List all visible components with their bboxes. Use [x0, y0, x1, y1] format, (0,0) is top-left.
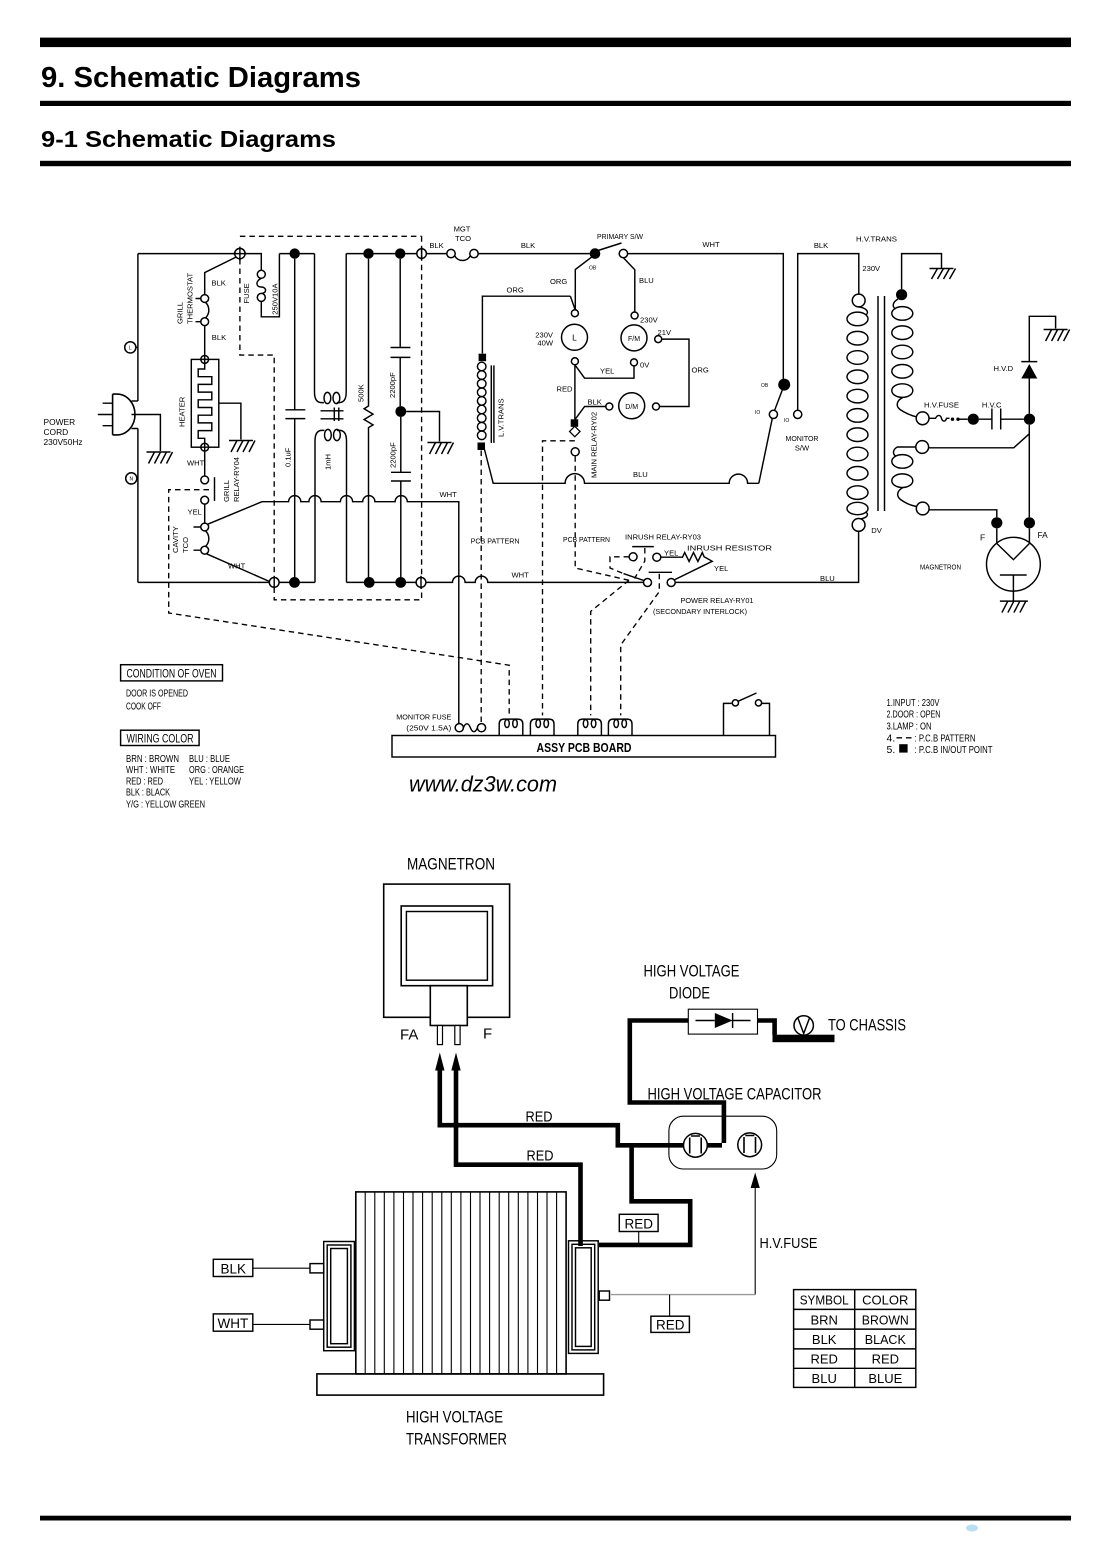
wire: HV secondary top to ground	[902, 254, 942, 290]
capacitor HIGH VOLTAGE CAPACITOR body	[669, 1116, 777, 1169]
svg-text:TCO: TCO	[181, 537, 190, 553]
svg-text:BRN: BRN	[810, 1312, 837, 1327]
svg-text:BLK: BLK	[212, 279, 226, 288]
svg-text:CONDITION OF OVEN: CONDITION OF OVEN	[127, 668, 217, 680]
node: dot F	[991, 517, 1002, 528]
wire: red lead to F pin with arrow	[451, 1053, 460, 1071]
header bar 2	[40, 101, 1071, 106]
svg-text:INRUSH RELAY-RY03: INRUSH RELAY-RY03	[625, 533, 701, 542]
wire: diode to chassis	[758, 1021, 775, 1036]
svg-text:RED: RED	[625, 1216, 654, 1231]
svg-text:GRILL: GRILL	[176, 302, 185, 324]
wire: top line segment B (1mH right to MGT TCO)	[346, 253, 447, 255]
transformer core laminations	[365, 1192, 556, 1374]
node: open circle with cross right	[416, 578, 426, 588]
svg-text:WHT: WHT	[228, 562, 246, 571]
box WIRING COLOR	[121, 730, 200, 745]
capacitor 0.1uF	[285, 259, 305, 577]
svg-text:PCB PATTERN: PCB PATTERN	[563, 535, 610, 544]
svg-text:WHT : WHITE: WHT : WHITE	[126, 764, 175, 776]
transformer left coil frame	[324, 1242, 355, 1351]
svg-text:RED: RED	[526, 1110, 553, 1126]
svg-text:MAIN RELAY-RY02: MAIN RELAY-RY02	[590, 412, 599, 478]
node: dot HV junction	[1024, 414, 1035, 425]
wire: ORG branch to LV trans	[482, 296, 575, 353]
svg-text:RED: RED	[656, 1318, 685, 1333]
wire: top line segment A (fuse riser to 1mH left)	[279, 253, 314, 255]
svg-text:H.V.TRANS: H.V.TRANS	[856, 235, 897, 244]
svg-text:BLU: BLU	[639, 276, 654, 285]
svg-text:FA: FA	[1038, 530, 1049, 540]
switch door interlock on PCB	[724, 703, 770, 735]
svg-text:HIGH VOLTAGE CAPACITOR: HIGH VOLTAGE CAPACITOR	[648, 1086, 822, 1104]
magnetron outer case	[384, 884, 510, 1017]
svg-text:0.1uF: 0.1uF	[284, 447, 293, 467]
svg-text:H.V.C: H.V.C	[982, 401, 1002, 410]
svg-text:OB: OB	[761, 383, 769, 389]
svg-text:GRILL: GRILL	[222, 480, 231, 502]
wire: bottom segment to 1mH	[279, 581, 315, 583]
svg-text:WHT: WHT	[440, 490, 458, 499]
svg-text:H.V.FUSE: H.V.FUSE	[760, 1235, 818, 1252]
svg-text:COLOR: COLOR	[862, 1293, 908, 1308]
wire: BLU bus with hops	[485, 450, 759, 484]
wire: diode to capacitor terminal	[630, 1021, 724, 1144]
node: dot 0.1uF bottom	[289, 577, 300, 588]
svg-text:1.INPUT : 230V: 1.INPUT : 230V	[887, 697, 940, 709]
footer blue smudge	[966, 1525, 978, 1532]
svg-text:ORG: ORG	[692, 366, 709, 375]
svg-text:H.V.D: H.V.D	[994, 364, 1014, 373]
wire: bottom segment from 1mH to fuse hops	[347, 581, 417, 583]
svg-text:L.V.TRANS: L.V.TRANS	[497, 398, 506, 437]
wire: bottom line hops over monitor fuse drops	[426, 576, 644, 582]
svg-text:: P.C.B PATTERN: : P.C.B PATTERN	[915, 732, 976, 744]
svg-text:L: L	[129, 346, 132, 352]
svg-text:500K: 500K	[357, 384, 366, 402]
footer bar	[40, 1516, 1071, 1521]
svg-text:S/W: S/W	[795, 444, 810, 453]
svg-text:MONITOR FUSE: MONITOR FUSE	[396, 713, 451, 722]
svg-text:DV: DV	[871, 526, 882, 535]
svg-text:MGT: MGT	[454, 225, 471, 234]
inductor 1mH common-mode choke	[315, 254, 347, 403]
svg-text:0V: 0V	[640, 361, 650, 370]
svg-text:BLK: BLK	[521, 241, 535, 250]
node: dot	[968, 414, 979, 425]
svg-text:1mH: 1mH	[324, 454, 333, 470]
wire: midpoint to ground	[406, 412, 439, 442]
svg-text:BRN : BROWN: BRN : BROWN	[126, 753, 179, 765]
svg-text:ORG: ORG	[507, 286, 524, 295]
magnetron pins	[437, 1026, 442, 1045]
svg-text:9. Schematic Diagrams: 9. Schematic Diagrams	[41, 62, 361, 94]
svg-text:YEL : YELLOW: YEL : YELLOW	[189, 775, 241, 787]
header bar 3	[40, 161, 1071, 166]
resistor 500K	[364, 259, 373, 577]
svg-text:BROWN: BROWN	[862, 1312, 909, 1327]
svg-text:ASSY PCB BOARD: ASSY PCB BOARD	[537, 741, 632, 755]
svg-text:230V: 230V	[862, 264, 881, 273]
node: open circle with cross	[269, 578, 279, 588]
motor D/M	[619, 393, 645, 419]
svg-text:OB: OB	[589, 266, 597, 272]
svg-text:BLK: BLK	[429, 241, 443, 250]
capacitor H.V.C	[979, 409, 1024, 430]
chassis symbol circle-V	[794, 1016, 813, 1035]
svg-text:F: F	[483, 1026, 492, 1043]
fuse H.V.FUSE	[916, 412, 929, 425]
svg-text:FUSE: FUSE	[242, 283, 251, 303]
svg-text:WHT: WHT	[702, 240, 720, 249]
relay GRILL RELAY-RY04 contacts	[201, 476, 209, 484]
svg-text:BLUE: BLUE	[868, 1371, 902, 1386]
wire: WHT top to monitor switch	[628, 254, 784, 379]
svg-text:www.dz3w.com: www.dz3w.com	[409, 772, 557, 797]
svg-text:230V: 230V	[640, 316, 659, 325]
wire: junction to grill thermostat	[205, 257, 237, 295]
svg-text:BLU: BLU	[820, 574, 835, 583]
svg-text:WHT: WHT	[218, 1316, 249, 1331]
wire: cavity TCO bottom diagonal to bottom line	[207, 554, 270, 582]
svg-text:230V50Hz: 230V50Hz	[44, 437, 83, 447]
wire: DV to bottom BLU line	[675, 531, 858, 582]
svg-text:(SECONDARY INTERLOCK): (SECONDARY INTERLOCK)	[653, 607, 747, 616]
diode HIGH VOLTAGE DIODE	[688, 1009, 757, 1034]
transformer L.V.TRANS	[479, 354, 487, 362]
capacitor 2200pF lower	[391, 417, 411, 577]
node: dot 2200pF tap	[395, 248, 405, 258]
svg-text:HIGH VOLTAGE: HIGH VOLTAGE	[406, 1409, 503, 1427]
svg-text:BLK: BLK	[212, 333, 226, 342]
svg-text:RED: RED	[557, 385, 574, 394]
ground: HVD	[1044, 330, 1070, 342]
svg-text:DIODE: DIODE	[669, 985, 710, 1003]
wire: BLK from relay to D/M	[575, 407, 606, 420]
connector CN4	[608, 719, 632, 735]
svg-text:YEL: YEL	[188, 508, 202, 517]
power plug POWER CORD	[113, 394, 135, 435]
svg-text:CORD: CORD	[44, 427, 69, 437]
label RED box upper	[619, 1214, 658, 1231]
connector CN1	[499, 719, 523, 735]
wire: transformer secondary lead (thin)	[611, 1294, 755, 1296]
wire: MGT TCO to primary switch	[478, 253, 590, 255]
svg-text:IO: IO	[784, 418, 789, 424]
ground: mains plug	[147, 452, 173, 464]
node: dot 2200pF bottom	[395, 577, 406, 588]
svg-text:YEL: YEL	[600, 367, 614, 376]
svg-text:PRIMARY S/W: PRIMARY S/W	[597, 232, 644, 241]
wire: ORG from primary switch down to lamp	[575, 257, 592, 310]
svg-text:250V10A: 250V10A	[271, 283, 280, 315]
svg-text:RED: RED	[527, 1149, 554, 1165]
wire: plug middle prong to ground	[132, 415, 161, 452]
switch PRIMARY S/W	[590, 248, 601, 259]
svg-text:TRANSFORMER: TRANSFORMER	[406, 1431, 507, 1449]
svg-text:D/M: D/M	[625, 404, 638, 411]
svg-text:2200pF: 2200pF	[389, 442, 398, 468]
fuse FUSE 250V10A	[257, 270, 265, 278]
dashed: LV trans to monitor fuse	[480, 451, 482, 724]
dashed: grill relay PCB pattern box	[169, 490, 510, 716]
svg-text:BLK: BLK	[221, 1261, 247, 1276]
ground: 2200pF midpoint	[428, 443, 454, 455]
transformer right coil frame	[569, 1241, 599, 1354]
svg-text:F: F	[980, 533, 985, 543]
wire: BLK link monitor to HV trans	[798, 254, 859, 411]
dashed: EMI filter box	[240, 236, 422, 600]
svg-text:YEL: YEL	[714, 564, 728, 573]
wire: junction to fuse	[245, 254, 261, 271]
wire: mid WHT wire with hops	[262, 496, 459, 724]
svg-text:ORG : ORANGE: ORG : ORANGE	[189, 764, 244, 776]
svg-text:RED: RED	[872, 1352, 899, 1367]
table SYMBOL/COLOR	[794, 1290, 916, 1388]
connector CN3	[578, 719, 602, 735]
transformer HV secondary winding	[896, 289, 907, 300]
wire: N rail from plug down to bottom line	[132, 429, 138, 583]
node: dot 500K tap	[363, 248, 373, 258]
thermal cutout MGT TCO	[447, 249, 455, 257]
node: dot 0.1uF tap	[290, 248, 300, 258]
wire: top line rail L segment	[138, 253, 235, 255]
svg-text:(250V 1.5A): (250V 1.5A)	[406, 724, 452, 733]
svg-text:WHT: WHT	[187, 459, 205, 468]
svg-text:MAGNETRON: MAGNETRON	[920, 563, 961, 572]
svg-text:2.DOOR : OPEN: 2.DOOR : OPEN	[887, 709, 941, 721]
wire: transformer HV lead to capacitor	[599, 1143, 690, 1245]
wire: red lead to FA pin with arrow	[435, 1053, 444, 1071]
svg-text:RED : RED: RED : RED	[126, 775, 163, 787]
pcb ASSY PCB BOARD	[392, 736, 776, 758]
svg-text:POWER: POWER	[44, 417, 76, 427]
label RED box lower	[651, 1316, 690, 1332]
svg-text:9-1 Schematic Diagrams: 9-1 Schematic Diagrams	[41, 126, 336, 152]
svg-text:BLACK: BLACK	[865, 1332, 906, 1347]
dashed: convergence to connector 3	[591, 580, 629, 715]
capacitor 2200pF upper	[391, 259, 411, 407]
svg-text:21V: 21V	[658, 328, 672, 337]
wire: L rail	[137, 254, 139, 401]
wire: filament bottom to F dot	[929, 510, 997, 517]
svg-text:RED: RED	[810, 1352, 837, 1367]
svg-text:Y/G : YELLOW GREEN: Y/G : YELLOW GREEN	[126, 798, 205, 810]
resistor INRUSH RESISTOR	[661, 553, 712, 581]
diode H.V.D	[1028, 379, 1030, 414]
wire: cavity TCO top to mid WHT wire	[208, 502, 263, 525]
svg-text:MONITOR: MONITOR	[786, 434, 819, 443]
svg-text:HEATER: HEATER	[178, 396, 187, 427]
svg-text:DOOR IS OPENED: DOOR IS OPENED	[126, 687, 188, 699]
node: dot FA	[1024, 517, 1035, 528]
svg-text:L: L	[572, 333, 577, 343]
lamp L 230V 40W	[562, 324, 588, 350]
svg-text:BLK: BLK	[814, 241, 828, 250]
svg-text:: P.C.B IN/OUT POINT: : P.C.B IN/OUT POINT	[915, 744, 993, 756]
node: circled L terminal	[125, 342, 136, 353]
node: dot 500K bottom	[364, 577, 375, 588]
svg-text:HIGH VOLTAGE: HIGH VOLTAGE	[644, 963, 740, 981]
svg-text:BLU: BLU	[812, 1371, 837, 1386]
dashed: RY03 actuator	[635, 548, 645, 579]
svg-text:TO CHASSIS: TO CHASSIS	[828, 1017, 906, 1035]
wire: fan right terminal ORG loop to D/M	[660, 339, 690, 406]
svg-text:3.LAMP : ON: 3.LAMP : ON	[887, 720, 932, 732]
wire: filament top to FA column	[929, 425, 1030, 517]
transformer right terminal tab	[599, 1291, 609, 1300]
transformer core	[878, 296, 885, 511]
wire: thermostat to heater	[204, 326, 206, 356]
svg-text:ORG: ORG	[550, 277, 567, 286]
svg-text:BLK: BLK	[588, 398, 602, 407]
dashed: RY01 actuator to connector 4	[621, 574, 660, 716]
magnetron inner frame	[401, 906, 492, 986]
node: 2200pF midpoint dot	[395, 406, 406, 417]
svg-text:WHT: WHT	[512, 571, 530, 580]
wire: heater to grill relay	[204, 451, 206, 476]
svg-text:F/M: F/M	[628, 336, 640, 343]
thermostat GRILL THERMOSTAT	[201, 295, 209, 303]
dashed: RY02 coil links	[543, 441, 630, 716]
svg-text:BLK : BLACK: BLK : BLACK	[126, 787, 170, 799]
switch MONITOR S/W	[778, 379, 790, 391]
box CONDITION OF OVEN	[121, 665, 223, 681]
magnetron MAGNETRON	[987, 537, 1041, 591]
relay POWER RELAY-RY01 contacts	[644, 579, 652, 587]
svg-text:5.: 5.	[887, 744, 896, 756]
svg-text:N: N	[129, 477, 133, 483]
wire: grill relay to cavity TCO	[204, 504, 206, 523]
wire: plug top to L rail	[132, 400, 138, 402]
svg-text:IO: IO	[755, 410, 760, 416]
fan motor F/M	[621, 325, 647, 351]
svg-text:TCO: TCO	[455, 234, 471, 243]
wire: bottom line left segment	[138, 581, 270, 583]
header bar top	[40, 38, 1071, 48]
node: fuse junction circle with cross	[235, 248, 245, 258]
svg-text:RELAY-RY04: RELAY-RY04	[232, 457, 241, 502]
svg-text:4.: 4.	[887, 732, 896, 744]
svg-text:BLU: BLU	[633, 470, 648, 479]
wire: fuse bottom return riser	[261, 254, 279, 317]
svg-text:THERMOSTAT: THERMOSTAT	[186, 272, 195, 324]
transformer filament winding	[916, 441, 929, 454]
transformer HIGH VOLTAGE TRANSFORMER core	[356, 1192, 566, 1374]
relay MAIN RELAY-RY02	[571, 419, 579, 427]
svg-text:COOK OFF: COOK OFF	[126, 701, 161, 713]
thermal cutout CAVITY TCO	[201, 523, 209, 531]
node: open circle at dashed box edge	[417, 249, 427, 259]
chassis bar TO CHASSIS	[773, 1035, 835, 1043]
transformer left terminal tabs	[310, 1264, 324, 1273]
heater HEATER	[191, 359, 219, 447]
transformer H.V.TRANS primary	[852, 294, 865, 307]
connector CN2	[530, 719, 554, 735]
svg-text:H.V.FUSE: H.V.FUSE	[924, 401, 959, 410]
ground: heater	[229, 441, 255, 453]
magnetron neck	[430, 986, 467, 1026]
ground: HV secondary	[930, 269, 956, 280]
transformer base	[317, 1374, 604, 1395]
svg-text:MAGNETRON: MAGNETRON	[407, 856, 495, 874]
svg-text:SYMBOL: SYMBOL	[800, 1293, 849, 1308]
label WHT box	[213, 1314, 253, 1331]
ground: magnetron	[1000, 601, 1028, 613]
svg-text:YEL: YEL	[664, 549, 678, 558]
dashed: RY03 left contact hook	[610, 557, 629, 574]
label BLK box	[213, 1259, 253, 1276]
svg-text:FA: FA	[400, 1027, 418, 1044]
svg-text:2200pF: 2200pF	[388, 372, 397, 398]
wire: heater frame to ground	[219, 403, 241, 439]
node: circled N terminal	[126, 473, 137, 484]
svg-text:WIRING COLOR: WIRING COLOR	[127, 733, 194, 745]
svg-text:CAVITY: CAVITY	[171, 526, 180, 553]
svg-text:BLK: BLK	[812, 1332, 837, 1347]
wire: lamp bottom to YEL and RED	[575, 365, 634, 420]
svg-text:INRUSH RESISTOR: INRUSH RESISTOR	[687, 544, 773, 553]
wire: BLU from primary switch to fan	[623, 258, 634, 312]
arrow H.V.FUSE pointer	[754, 1186, 756, 1295]
svg-text:40W: 40W	[537, 339, 553, 348]
svg-text:BLU : BLUE: BLU : BLUE	[189, 753, 230, 765]
svg-text:PCB PATTERN: PCB PATTERN	[471, 536, 520, 545]
svg-text:POWER RELAY-RY01: POWER RELAY-RY01	[681, 596, 754, 605]
